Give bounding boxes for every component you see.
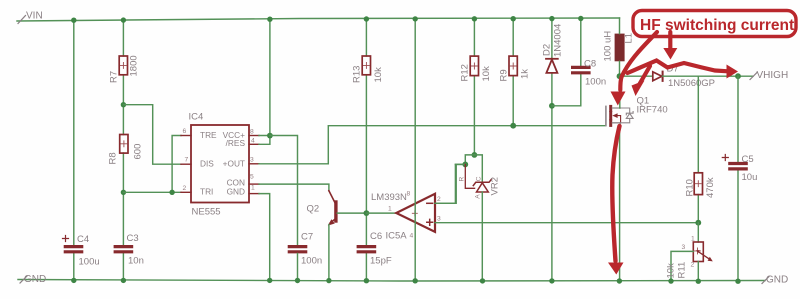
svg-text:8: 8 [407,191,411,198]
annotation long arrowhead [608,263,624,275]
svg-text:IRF740: IRF740 [637,105,668,116]
junction pin1 bottom rail [267,278,272,283]
diode D2 [546,59,558,73]
VR2 cathode connector [465,164,474,188]
svg-text:1: 1 [691,236,695,243]
svg-text:Q2: Q2 [307,204,320,215]
wire op-amp power column [414,19,416,281]
svg-text:R11: R11 [677,262,688,279]
svg-text:100n: 100n [585,77,606,88]
junction VCC top rail [267,17,272,22]
wire VCC pin8 to top rail [259,19,270,136]
junction power column bottom [413,278,418,283]
svg-text:IC4: IC4 [189,112,204,123]
junction C7 bottom [295,278,300,283]
junction C5 bottom [735,279,740,284]
svg-text:DIS: DIS [200,159,214,169]
junction R13 top rail [364,16,369,21]
junction Q2 emitter bottom [326,278,331,283]
R9 origin cross [510,63,516,69]
svg-text:VR2: VR2 [490,177,501,195]
resistor R12 [470,56,478,76]
IC4 pin stub 1 [249,193,259,195]
junction Q1 source bottom [617,278,622,283]
svg-text:1800: 1800 [129,55,140,76]
svg-text:100u: 100u [79,257,100,268]
svg-text:GND: GND [227,187,245,197]
junction C4 bottom [71,278,76,283]
svg-text:R9: R9 [499,69,510,81]
svg-text:1N5060GP: 1N5060GP [668,78,715,89]
wire op-amp output to node [366,212,396,214]
wire drain node to D7 anode [620,75,653,77]
wire R12 node to VR2 cathode [474,155,482,182]
capacitor C3 [115,247,131,252]
wire pin2 jog down [435,164,455,203]
svg-text:VIN: VIN [26,11,43,22]
annotation short down arrow [668,32,672,48]
svg-text:/RES: /RES [226,138,246,148]
diode D7 [653,72,663,81]
wire R10 column [697,76,699,223]
wire TRI pin2 [123,191,181,193]
svg-text:TRI: TRI [200,187,213,197]
wire VCC node to C7 [270,136,298,246]
svg-text:1: 1 [388,206,392,213]
resistor R10 [694,173,702,195]
op-amp IC4 NE555 box [191,125,249,203]
capacitor C4 [65,247,81,252]
IC4 pin stub 8 [249,135,259,137]
svg-text:1: 1 [251,185,255,192]
svg-text:2: 2 [183,185,187,192]
annotation HF switching current box [633,11,796,37]
svg-text:5: 5 [250,174,254,181]
wire VIN top rail [17,18,620,21]
annotation long current arrow [612,126,619,261]
ground GND left label [20,274,46,285]
svg-text:600: 600 [133,144,144,160]
potentiometer R11 [693,223,713,281]
svg-text:GND: GND [766,275,788,286]
transistor Q2 [328,191,336,226]
R8 origin cross [121,141,127,147]
svg-text:D2: D2 [542,44,553,56]
svg-text:R13: R13 [352,66,363,83]
wire C4 column [73,19,75,281]
wire L1 top to rail [619,18,621,34]
svg-text:R10: R10 [685,179,696,196]
wire C7 bottom [297,254,299,281]
junction D2 bottom rail [549,278,554,283]
wire Q2 emitter to rail [328,225,330,281]
wire CON pin5 to Q2 collector [259,184,329,191]
annotation zigzag stroke [628,61,729,74]
svg-text:VHIGH: VHIGH [757,70,789,81]
svg-text:2: 2 [437,196,441,203]
svg-text:R12: R12 [460,64,471,81]
svg-text:3: 3 [437,216,441,223]
junction C4 top [71,18,76,23]
svg-text:R7: R7 [109,71,120,83]
junction R8/C3/TRI node [121,190,126,195]
IC5A minus input mark [427,202,433,204]
svg-text:1k: 1k [520,69,531,79]
svg-text:NE555: NE555 [192,207,221,218]
R10 origin cross [695,181,701,187]
junction R10 bottom node [695,220,701,226]
capacitor C7 [289,247,305,252]
junction C8 top rail [578,16,583,21]
svg-text:3: 3 [682,244,686,251]
junction D2 top rail [549,16,554,21]
node VHIGH label [750,70,788,81]
svg-text:IC5A: IC5A [386,231,408,242]
svg-text:L1: L1 [624,33,635,44]
junction R7 top rail [121,17,126,22]
op-amp IC5A [396,194,435,232]
wire OUT pin3 to Q1 gate [259,126,605,164]
svg-text:1N4004: 1N4004 [553,24,564,57]
IC4 pin stub 3 [249,163,259,165]
svg-text:15pF: 15pF [370,256,392,267]
wire inverting input pin2 [435,164,465,203]
svg-text:HF switching current: HF switching current [640,17,794,34]
svg-text:TRE: TRE [200,130,217,140]
junction R7/R8 node [121,102,126,107]
junction R11 wiper bottom [668,278,673,283]
transistor Q1 IRF740 [606,106,633,128]
diode VR2 zener [473,179,491,192]
svg-text:C3: C3 [127,233,139,244]
svg-text:10k: 10k [481,66,492,82]
wire C8 column top [552,18,581,105]
svg-text:4: 4 [410,233,414,240]
wire R12 column [473,19,475,155]
wire R7-R8-C3 column [122,19,124,281]
junction power column top [413,16,418,21]
svg-text:2: 2 [691,262,695,269]
IC5A origin cross [412,211,417,216]
svg-text:470k: 470k [705,177,716,198]
junction VCC pin8/pin4 [267,133,273,139]
svg-text:C8: C8 [584,59,596,70]
IC4 pin stub 4 [249,143,259,145]
junction R12 top rail [472,16,477,21]
capacitor C5 [730,164,746,169]
wire D2 column [551,19,553,281]
wire Q1 drain [619,76,621,108]
node VIN label [18,11,43,24]
wire L1 bottom to drain node [619,61,621,76]
junction VHIGH C5 [735,73,741,79]
R7 origin cross [120,62,126,68]
wire R7/R8 node to DIS pin7 [123,105,181,165]
IC5A plus input mark [427,219,433,225]
annotation curve box to drain arrow [620,32,657,90]
wire input node to pin2 jog [455,163,465,165]
C4 polarity plus [63,236,69,242]
wire RES pin4 tie to VCC [259,136,270,145]
svg-text:10k: 10k [373,67,384,83]
inductor L1 [615,34,625,62]
R12 origin cross [471,63,477,69]
resistor R13 [362,56,370,75]
wire R13 column [365,19,367,281]
wire GND pin1 to bottom rail [259,194,270,281]
junction drain node [617,73,623,79]
svg-text:10u: 10u [742,172,758,183]
capacitor C8 [573,67,589,72]
resistor R7 [119,56,127,75]
wire GND bottom rail [18,280,765,282]
annotation right arrowhead [727,65,739,79]
wire R12 node to input node [465,155,474,165]
wire R11 wiper to rail [671,251,693,281]
svg-text:GND: GND [24,274,46,285]
junction R12 bottom node [472,152,478,158]
svg-text:C7: C7 [301,232,313,243]
svg-text:8: 8 [250,129,254,136]
ground GND right label [762,275,788,286]
junction TRE/TRI tie [169,190,174,195]
svg-text:C4: C4 [77,234,89,245]
svg-text:100n: 100n [301,256,322,267]
R13 origin cross [363,62,369,68]
svg-text:C6: C6 [370,231,382,242]
svg-text:3: 3 [250,157,254,164]
svg-text:R: R [459,177,466,182]
junction R9 top rail [511,16,516,21]
wire Q1 source to rail [619,129,621,281]
IC4 pin stub 6 [181,135,191,137]
annotation branch arrowhead [632,81,645,97]
capacitor C6 [358,247,374,252]
junction inverting input node [462,162,468,168]
svg-text:C: C [475,176,482,181]
svg-text:7: 7 [185,157,189,164]
IC4 pin stub 7 [181,163,191,165]
junction VR2 anode bottom [480,278,485,283]
wire R9 column [512,19,514,126]
svg-text:+OUT: +OUT [223,159,245,169]
annotation branch arrow [640,66,651,84]
IC4 pin stub 5 [249,183,259,185]
wire VR2 anode to rail [481,192,483,281]
svg-text:A: A [475,194,482,199]
svg-text:6: 6 [183,128,187,135]
svg-text:C5: C5 [742,154,754,165]
resistor R8 [120,135,128,154]
svg-text:LM393N: LM393N [371,192,407,203]
junction D2 anode C8 [549,103,555,109]
IC4 pin stub 2 [181,191,191,193]
junction C3 bottom [121,278,126,283]
annotation short down arrowhead [663,48,677,60]
wire C5 column [737,76,739,281]
C5 polarity plus [722,155,728,161]
svg-text:10k: 10k [666,263,677,279]
wire D7 cathode to VHIGH [662,75,753,77]
wire Q2 base to node [337,212,366,214]
junction base/output node [364,210,370,216]
annotation drain arrowhead [611,92,626,106]
wire TRE pin6 tie to TRI [172,136,181,193]
svg-text:4: 4 [251,138,255,145]
junction C6 bottom [364,278,369,283]
junction R9 gate line [510,123,516,129]
svg-text:R8: R8 [108,152,119,164]
svg-text:100 uH: 100 uH [603,31,614,62]
svg-text:10n: 10n [128,256,144,267]
wire non-inverting input pin3 to R10 node [435,222,698,224]
junction R11 bottom [696,279,701,284]
resistor R9 [509,56,517,76]
